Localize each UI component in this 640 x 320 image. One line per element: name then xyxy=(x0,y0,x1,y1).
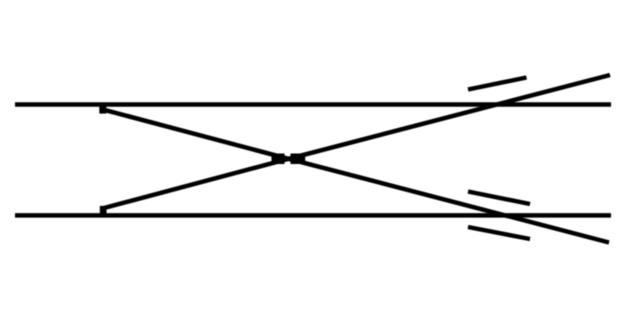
node D: diamond crossing frog, right block xyxy=(291,154,306,165)
wire: crossover diagonal D1 (top-left to bottom-right) xyxy=(104,110,609,243)
wire: top main track xyxy=(15,102,611,107)
node A: turnout points block on top track xyxy=(99,106,106,114)
wire: bottom main track xyxy=(15,213,611,218)
wire: crossover diagonal D2 (bottom-left to top-right) xyxy=(104,75,610,208)
wire: double-slip lower stroke at bottom-right crossing xyxy=(468,227,530,239)
node B: turnout points block on bottom track xyxy=(100,206,107,214)
node C: diamond crossing frog, left block xyxy=(272,154,285,165)
wire: double-slip upper stroke at bottom-right crossing xyxy=(468,192,530,205)
wire: single-slip stroke above top-right crossing xyxy=(468,78,527,90)
